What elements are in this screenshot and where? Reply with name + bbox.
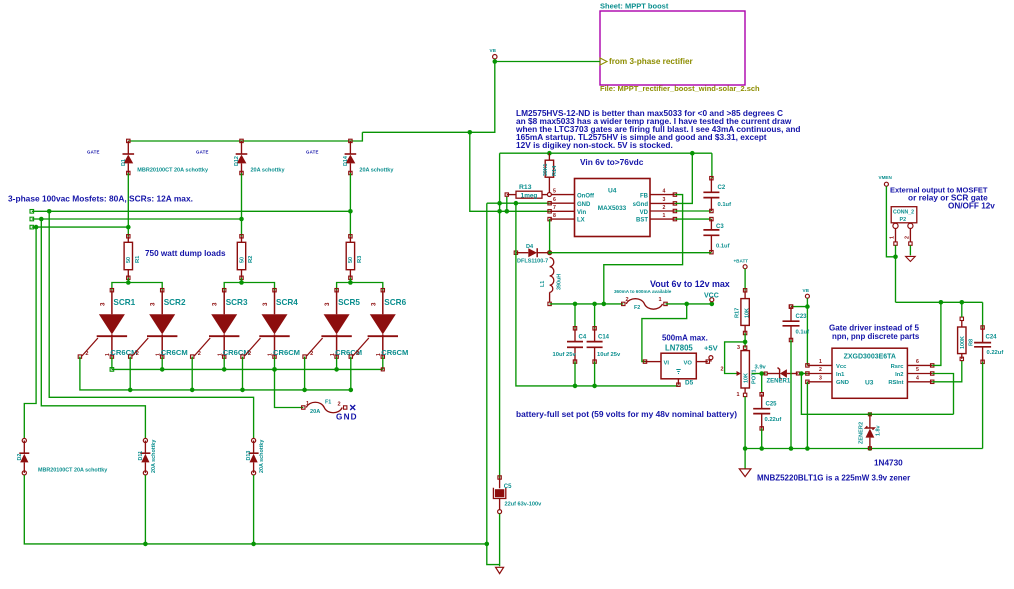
svg-text:VB: VB (803, 288, 810, 293)
svg-text:BST: BST (636, 218, 648, 224)
svg-text:0.1uf: 0.1uf (718, 202, 732, 208)
svg-text:50: 50 (239, 257, 245, 263)
svg-text:sGnd: sGnd (633, 202, 649, 208)
svg-text:CONN_2: CONN_2 (893, 209, 914, 215)
svg-text:POT1: POT1 (752, 369, 758, 384)
svg-text:360mA to 600mA available: 360mA to 600mA available (614, 289, 672, 294)
svg-text:RSInt: RSInt (888, 380, 903, 386)
svg-text:4: 4 (916, 375, 919, 381)
svg-text:CR6CM: CR6CM (381, 348, 408, 357)
svg-text:D2: D2 (17, 454, 23, 461)
svg-text:ZENER1: ZENER1 (767, 379, 791, 385)
svg-text:2: 2 (356, 351, 359, 357)
svg-text:2: 2 (136, 351, 139, 357)
svg-text:1: 1 (330, 353, 336, 356)
svg-text:C5: C5 (504, 484, 512, 490)
svg-text:20A schottky: 20A schottky (151, 440, 157, 473)
svg-text:2: 2 (904, 236, 910, 239)
svg-text:5: 5 (553, 189, 556, 195)
svg-text:3: 3 (99, 302, 106, 306)
svg-text:R14: R14 (552, 165, 558, 176)
svg-text:+5V: +5V (704, 344, 719, 353)
svg-text:3: 3 (819, 375, 822, 381)
svg-text:C4: C4 (579, 335, 587, 341)
svg-text:MNBZ5220BLT1G is a 225mW 3.9v: MNBZ5220BLT1G is a 225mW 3.9v zener (757, 474, 910, 483)
svg-text:3: 3 (150, 302, 157, 306)
svg-text:0.1uf: 0.1uf (716, 244, 730, 250)
svg-text:C3: C3 (716, 224, 724, 230)
svg-text:File: MPPT_rectifier_boost_win: File: MPPT_rectifier_boost_wind-solar_2.… (600, 84, 760, 93)
svg-text:CR6CM: CR6CM (161, 348, 188, 357)
svg-text:3: 3 (737, 345, 740, 351)
svg-text:0.22uf: 0.22uf (987, 350, 1004, 356)
svg-text:GATE: GATE (196, 150, 209, 155)
svg-text:D1: D1 (121, 159, 127, 166)
svg-text:In1: In1 (836, 372, 845, 378)
svg-text:10uf 25v: 10uf 25v (597, 352, 621, 358)
svg-text:6: 6 (916, 359, 919, 365)
svg-text:12V is digikey non-stock. 5V i: 12V is digikey non-stock. 5V is stocked. (516, 140, 673, 150)
svg-text:2: 2 (248, 351, 251, 357)
svg-text:1: 1 (376, 353, 382, 356)
svg-text:SCR1: SCR1 (113, 298, 135, 307)
svg-text:F1: F1 (325, 400, 331, 406)
svg-text:VB: VB (490, 48, 497, 53)
svg-text:R2: R2 (248, 256, 254, 263)
svg-text:GND: GND (577, 202, 591, 208)
svg-text:1: 1 (155, 353, 161, 356)
svg-text:3-phase 100vac Mosfets: 80A, S: 3-phase 100vac Mosfets: 80A, SCRs: 12A m… (8, 194, 193, 204)
svg-text:1N4730: 1N4730 (874, 459, 903, 468)
svg-text:Vin 6v to>76vdc: Vin 6v to>76vdc (580, 157, 644, 167)
svg-text:ON/OFF 12v: ON/OFF 12v (948, 202, 995, 211)
svg-text:R8: R8 (969, 339, 975, 346)
svg-text:2: 2 (310, 351, 313, 357)
svg-text:MBR20100CT 20A schottky: MBR20100CT 20A schottky (38, 468, 107, 474)
svg-text:D11: D11 (138, 451, 144, 461)
svg-text:5: 5 (916, 367, 919, 373)
svg-text:SCR2: SCR2 (164, 298, 186, 307)
svg-text:SCR6: SCR6 (384, 298, 406, 307)
svg-text:1.8v: 1.8v (876, 426, 882, 437)
svg-text:2: 2 (819, 367, 822, 373)
svg-text:FB: FB (640, 193, 649, 199)
svg-text:Vin: Vin (577, 210, 587, 216)
svg-text:1: 1 (737, 392, 740, 398)
svg-text:390uH: 390uH (557, 274, 563, 290)
svg-text:D5: D5 (685, 380, 694, 387)
svg-text:2: 2 (663, 205, 666, 211)
svg-text:C25: C25 (766, 402, 778, 408)
svg-text:1: 1 (663, 213, 666, 219)
svg-text:GND: GND (336, 412, 358, 421)
svg-text:battery-full set pot (59 volts: battery-full set pot (59 volts for my 48… (516, 409, 737, 419)
svg-text:VMEN: VMEN (879, 175, 893, 180)
svg-text:GATE: GATE (87, 150, 100, 155)
svg-text:U3: U3 (865, 380, 874, 387)
svg-text:3: 3 (370, 302, 377, 306)
svg-text:DFLS1100-7: DFLS1100-7 (517, 259, 548, 265)
svg-text:C23: C23 (796, 314, 808, 320)
svg-text:1: 1 (217, 353, 223, 356)
svg-text:LX: LX (577, 218, 585, 224)
svg-text:0.22uf: 0.22uf (765, 417, 782, 423)
svg-text:20A schottky: 20A schottky (259, 440, 265, 473)
svg-text:+BATT: +BATT (734, 259, 749, 264)
svg-text:VCC: VCC (704, 293, 719, 300)
svg-text:3: 3 (324, 302, 331, 306)
svg-text:VO: VO (684, 361, 693, 367)
svg-text:P2: P2 (900, 217, 907, 223)
svg-text:6: 6 (553, 197, 556, 203)
svg-text:20A schottky: 20A schottky (359, 168, 394, 174)
svg-text:Rsrc: Rsrc (891, 364, 905, 370)
svg-text:10uf 25v: 10uf 25v (553, 352, 577, 358)
svg-text:1: 1 (105, 353, 111, 356)
svg-text:ZXGD3003E6TA: ZXGD3003E6TA (844, 354, 896, 361)
svg-text:2: 2 (85, 351, 88, 357)
svg-text:C24: C24 (986, 335, 998, 341)
svg-text:D14: D14 (343, 156, 349, 166)
svg-text:1: 1 (659, 297, 662, 303)
svg-text:2: 2 (721, 367, 724, 373)
svg-text:GND: GND (836, 380, 849, 386)
svg-text:20A schottky: 20A schottky (251, 168, 286, 174)
svg-text:2: 2 (626, 297, 629, 303)
svg-text:500mA max.: 500mA max. (662, 334, 708, 343)
svg-text:D13: D13 (246, 451, 252, 461)
svg-text:2: 2 (338, 402, 341, 408)
svg-text:1: 1 (268, 353, 274, 356)
svg-text:10K: 10K (744, 373, 750, 383)
svg-text:8: 8 (553, 213, 556, 219)
svg-text:SCR3: SCR3 (226, 298, 248, 307)
svg-text:SCR4: SCR4 (276, 298, 298, 307)
svg-text:Sheet: MPPT boost: Sheet: MPPT boost (600, 2, 669, 11)
svg-text:R17: R17 (735, 308, 741, 318)
svg-text:ZENER2: ZENER2 (859, 422, 865, 444)
svg-text:D12: D12 (234, 156, 240, 166)
svg-text:50: 50 (126, 257, 132, 263)
svg-text:from 3-phase rectifier: from 3-phase rectifier (609, 57, 694, 66)
svg-text:R3: R3 (357, 255, 363, 263)
svg-text:Vout 6v to 12v max: Vout 6v to 12v max (650, 279, 730, 289)
svg-text:F2: F2 (634, 305, 640, 311)
svg-text:CR6CM: CR6CM (273, 348, 300, 357)
svg-text:22uf 63v-100v: 22uf 63v-100v (505, 502, 543, 508)
svg-text:0.1uf: 0.1uf (796, 330, 810, 336)
svg-text:1: 1 (306, 401, 309, 407)
svg-text:VD: VD (640, 210, 649, 216)
svg-text:1: 1 (890, 236, 896, 239)
svg-text:R1: R1 (135, 255, 141, 263)
svg-text:VI: VI (664, 361, 670, 367)
svg-text:750 watt dump loads: 750 watt dump loads (145, 249, 226, 258)
svg-text:C14: C14 (598, 335, 610, 341)
svg-text:OnOff: OnOff (577, 193, 595, 199)
svg-text:L1: L1 (540, 281, 546, 287)
svg-text:MBR20100CT 20A schottky: MBR20100CT 20A schottky (137, 168, 209, 174)
svg-text:U4: U4 (608, 188, 617, 195)
svg-text:R13: R13 (519, 184, 532, 191)
svg-text:D4: D4 (526, 244, 534, 250)
svg-text:Vcc: Vcc (836, 364, 847, 370)
svg-text:1meg: 1meg (521, 192, 538, 199)
svg-text:1: 1 (819, 359, 822, 365)
svg-text:LN7805: LN7805 (665, 344, 693, 353)
svg-text:SCR5: SCR5 (338, 298, 360, 307)
svg-text:3: 3 (262, 302, 269, 306)
svg-text:10K: 10K (744, 308, 750, 318)
svg-text:2: 2 (198, 351, 201, 357)
svg-text:4: 4 (663, 188, 666, 194)
svg-text:In2: In2 (895, 372, 903, 378)
svg-text:7: 7 (553, 205, 556, 211)
svg-text:100K: 100K (960, 336, 966, 349)
svg-text:3.9v: 3.9v (755, 365, 767, 371)
svg-text:GATE: GATE (306, 150, 319, 155)
svg-text:20A: 20A (310, 409, 320, 415)
svg-text:MAX5033: MAX5033 (598, 205, 627, 212)
svg-text:50: 50 (348, 257, 354, 263)
svg-text:npn, pnp discrete parts: npn, pnp discrete parts (832, 332, 920, 341)
svg-text:39K1: 39K1 (543, 163, 549, 176)
svg-text:3: 3 (663, 197, 666, 203)
svg-text:3: 3 (212, 302, 219, 306)
svg-text:C2: C2 (718, 185, 726, 191)
